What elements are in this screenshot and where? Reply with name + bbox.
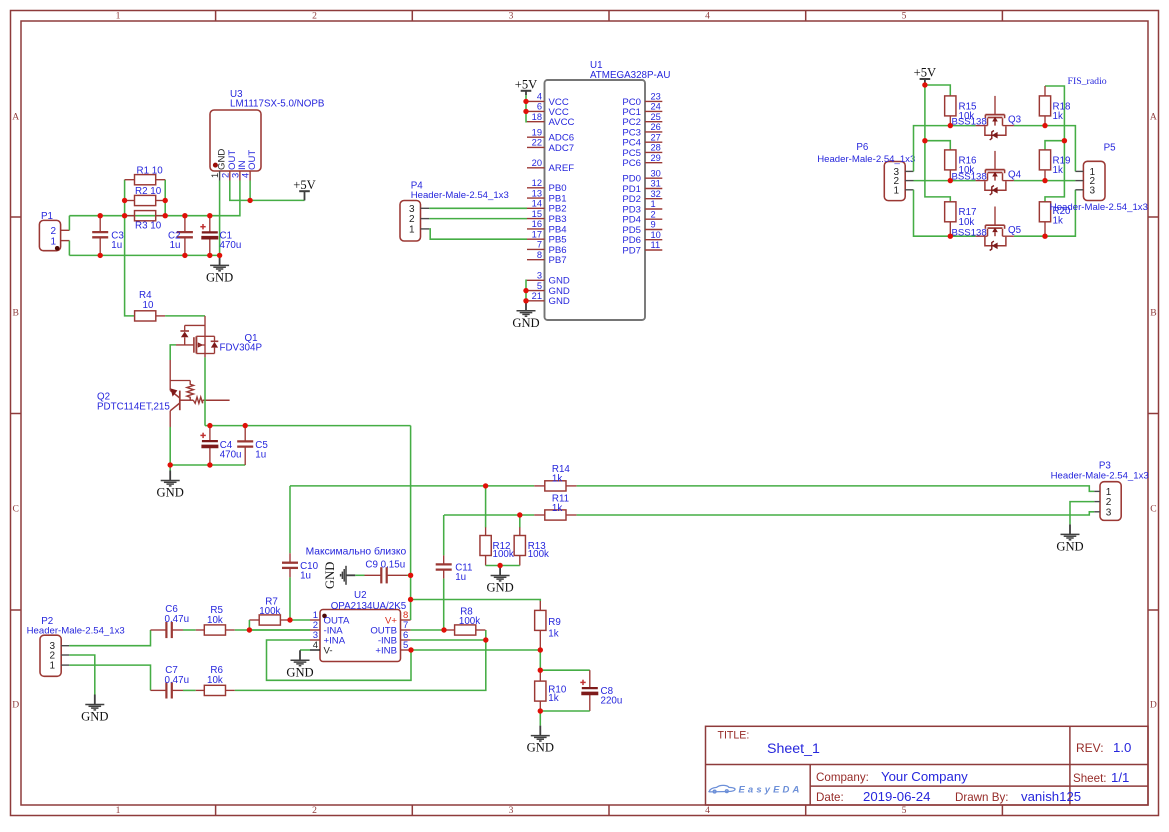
- svg-text:PDTC114ET,215: PDTC114ET,215: [97, 401, 170, 412]
- U3 pin1 marker: [213, 163, 218, 168]
- Q1 reference: [245, 333, 258, 344]
- wire C8 top branch: [540, 669, 590, 671]
- P2 pin stubs: [61, 646, 69, 665]
- wire -INA node: [249, 629, 310, 631]
- svg-text:3: 3: [537, 271, 542, 281]
- svg-text:GND: GND: [286, 665, 313, 679]
- U2 right pin stubs: [401, 620, 411, 650]
- wire P2 pin1 to C7: [69, 665, 150, 690]
- svg-text:5: 5: [537, 281, 542, 291]
- P6 value Header-Male-2.54_1x3: [817, 154, 915, 165]
- U1 right pin stubs: [645, 101, 662, 250]
- wire Q3 drain to R18 and P5 pin1: [1014, 126, 1076, 172]
- title value 1.0: [1113, 740, 1131, 755]
- svg-text:1u: 1u: [111, 240, 122, 251]
- P1 pin 2 stub: [61, 229, 70, 231]
- resistor R16: [945, 150, 956, 181]
- ground flag P3 pin2: [1056, 524, 1083, 553]
- capacitor C2: [177, 216, 193, 256]
- svg-text:GND: GND: [157, 486, 184, 500]
- svg-text:5: 5: [902, 11, 907, 22]
- P5 value Header-Male-2.54_1x3: [1050, 202, 1148, 213]
- ground flag rotated at C9: [323, 562, 355, 589]
- svg-text:GND: GND: [527, 741, 554, 755]
- wire R5 to U2 pin2: [235, 629, 310, 631]
- Q2 value PDTC114ET,215: [97, 401, 170, 412]
- resistor R10: [535, 670, 546, 711]
- svg-text:Header-Male-2.54_1x3: Header-Male-2.54_1x3: [1051, 470, 1149, 481]
- C3 label: [111, 230, 124, 251]
- P1 reference: [41, 211, 53, 222]
- wire R11 to P3 pin3: [577, 512, 1095, 515]
- wire R1 R2 left vertical: [124, 180, 126, 216]
- svg-text:1/1: 1/1: [1111, 770, 1129, 785]
- svg-text:LM1117SX-5.0/NOPB: LM1117SX-5.0/NOPB: [230, 99, 325, 110]
- wire U3 pin1 GND down: [219, 181, 221, 256]
- svg-text:Header-Male-2.54_1x3: Header-Male-2.54_1x3: [1050, 202, 1148, 213]
- svg-text:1: 1: [210, 173, 220, 178]
- svg-text:FDV304P: FDV304P: [220, 343, 263, 354]
- wire R12 feed: [485, 486, 487, 528]
- junction dots U1 power: [523, 99, 528, 304]
- svg-text:BSS138: BSS138: [952, 117, 987, 128]
- wire P4 pin1 to PB5: [429, 229, 527, 239]
- resistor R2: [125, 195, 166, 205]
- svg-text:AREF: AREF: [549, 163, 575, 174]
- svg-text:8: 8: [537, 250, 542, 260]
- R7 label: [259, 596, 280, 617]
- U2 value OPA2134UA/2K5: [331, 601, 407, 612]
- R13 label: [528, 541, 549, 560]
- resistor R5: [196, 625, 235, 635]
- transistor Q3 BSS138: [976, 96, 1014, 140]
- R20 label: [1053, 206, 1072, 227]
- svg-text:1: 1: [116, 805, 121, 816]
- svg-text:15: 15: [532, 209, 542, 219]
- svg-text:P1: P1: [41, 211, 53, 222]
- svg-text:1k: 1k: [552, 473, 562, 484]
- wire bottom rail: [69, 254, 219, 256]
- svg-text:3: 3: [1090, 185, 1096, 196]
- svg-text:+INB: +INB: [375, 646, 397, 657]
- svg-text:+5V: +5V: [914, 66, 937, 80]
- svg-text:B: B: [12, 307, 18, 318]
- wire OUTB to R8: [411, 629, 446, 631]
- resistor R17: [945, 202, 956, 236]
- wire R19 top branch: [1045, 141, 1064, 150]
- svg-text:3: 3: [230, 173, 240, 178]
- R17 label: [959, 207, 977, 228]
- U3 pin 2 OUT stub: [229, 171, 231, 181]
- wire R7 right to OUTA: [290, 619, 310, 621]
- svg-text:FIS_radio: FIS_radio: [1068, 76, 1107, 87]
- svg-text:Sheet:: Sheet:: [1073, 772, 1107, 785]
- svg-text:1k: 1k: [548, 693, 558, 704]
- svg-text:R3 10: R3 10: [135, 221, 162, 232]
- svg-text:Максимально близко: Максимально близко: [306, 545, 407, 557]
- ground flag R12 R13: [486, 566, 513, 595]
- R16 label: [959, 155, 978, 176]
- svg-text:2019-06-24: 2019-06-24: [863, 789, 930, 804]
- svg-text:P5: P5: [1104, 143, 1117, 154]
- svg-text:100k: 100k: [259, 606, 280, 617]
- svg-text:B: B: [1150, 307, 1156, 318]
- P3 reference: [1099, 460, 1112, 471]
- U2 pin1 marker: [322, 614, 327, 619]
- wire pin6 -INB to feedback: [411, 639, 486, 641]
- svg-text:Header-Male-2.54_1x3: Header-Male-2.54_1x3: [411, 190, 509, 201]
- C8 label: [601, 686, 623, 707]
- svg-text:21: 21: [532, 291, 542, 301]
- svg-text:16: 16: [532, 219, 542, 229]
- wire U3 pin2 to +5V rail: [230, 181, 305, 201]
- net label FIS_radio: [1068, 76, 1107, 87]
- svg-text:470u: 470u: [220, 240, 242, 251]
- svg-text:2: 2: [312, 805, 317, 816]
- capacitor C6: [151, 622, 184, 638]
- svg-text:1k: 1k: [548, 629, 558, 640]
- capacitor C4 polarized: [200, 426, 218, 465]
- border row letters: [12, 111, 1157, 710]
- R5 label: [207, 605, 223, 626]
- Q1 value FDV304P: [220, 343, 263, 354]
- border column ticks: [216, 11, 1003, 816]
- svg-text:22: 22: [532, 138, 542, 148]
- wire pin5 +INB line: [411, 649, 540, 651]
- wire C7 to R6: [183, 689, 196, 691]
- wire P1 pin2 to mid rail: [68, 216, 70, 231]
- svg-text:EasyEDA: EasyEDA: [739, 784, 803, 795]
- U3 reference U3: [230, 89, 243, 100]
- wire R7 left to -INA: [248, 620, 250, 630]
- title text REV:: [1076, 741, 1104, 755]
- svg-text:D: D: [12, 699, 19, 710]
- IC U1 ATMEGA328P body: [545, 80, 646, 320]
- svg-text:GND: GND: [323, 562, 337, 589]
- wire +5V branch to R16: [925, 141, 950, 150]
- U3 pin 4 OUT stub: [249, 171, 251, 181]
- P5 pin numbers: [1090, 167, 1096, 196]
- C4 label: [220, 440, 242, 461]
- title text Drawn By:: [955, 791, 1008, 804]
- resistor R20: [1039, 202, 1050, 236]
- svg-text:Q3: Q3: [1008, 115, 1022, 126]
- svg-text:100k: 100k: [493, 549, 514, 560]
- junction dots Q1 Q2 area: [168, 423, 248, 468]
- C6 label: [165, 604, 190, 625]
- wire V+ vertical: [410, 426, 412, 620]
- svg-text:TITLE:: TITLE:: [718, 730, 750, 742]
- U3 value LM1117SX-5.0/NOPB: [230, 99, 325, 110]
- transistor Q5 BSS138: [976, 207, 1014, 251]
- wire Q1 gate to Q2: [170, 345, 176, 360]
- svg-text:PD7: PD7: [622, 245, 641, 256]
- svg-text:Your Company: Your Company: [881, 769, 968, 784]
- svg-text:Drawn By:: Drawn By:: [955, 791, 1008, 804]
- svg-text:Date:: Date:: [816, 791, 844, 804]
- svg-text:26: 26: [651, 122, 661, 132]
- svg-text:9: 9: [651, 220, 656, 230]
- Q2 reference: [97, 392, 110, 403]
- svg-text:ADC7: ADC7: [549, 143, 575, 154]
- title value Sheet_1: [767, 741, 820, 757]
- svg-text:GND: GND: [206, 271, 233, 285]
- P5 pin stubs: [1075, 171, 1083, 189]
- svg-text:C: C: [1150, 503, 1156, 514]
- wire Q5 drain to P5 pin3: [1014, 190, 1076, 236]
- R10 label: [548, 685, 567, 705]
- svg-text:1k: 1k: [1053, 165, 1063, 176]
- power flag +5V near U3: [293, 178, 316, 201]
- EasyEDA logo: [709, 784, 803, 795]
- IC U2 OPA2134 body: [320, 610, 401, 662]
- svg-text:7: 7: [537, 240, 542, 250]
- title text Company:: [816, 771, 869, 784]
- svg-text:GND: GND: [486, 581, 513, 595]
- wire U3 pin4 down: [249, 181, 251, 201]
- Q3 reference: [1008, 115, 1022, 126]
- wire R4 to Q1: [165, 315, 205, 317]
- wire R14 line: [290, 485, 534, 487]
- U2 left pin names: [324, 616, 351, 657]
- svg-text:Q4: Q4: [1008, 170, 1022, 181]
- capacitor C11: [436, 515, 452, 630]
- svg-text:1: 1: [409, 224, 415, 235]
- svg-text:24: 24: [651, 102, 661, 112]
- svg-text:1: 1: [49, 661, 55, 672]
- R14 label: [552, 464, 571, 485]
- svg-text:3: 3: [509, 11, 514, 22]
- title value Your Company: [881, 769, 968, 784]
- R19 label: [1053, 155, 1071, 176]
- connector P5 body: [1083, 161, 1105, 200]
- resistor R9: [535, 601, 546, 650]
- wire P4 pin3 to PB2: [429, 207, 527, 209]
- resistor R4: [135, 311, 166, 321]
- junction dots opamp area: [247, 483, 543, 714]
- svg-text:1u: 1u: [455, 572, 466, 583]
- svg-text:C: C: [12, 503, 18, 514]
- capacitor C1 polarized: [200, 216, 218, 256]
- Q5 reference: [1008, 225, 1022, 236]
- P4 pin stubs: [421, 208, 430, 229]
- U3 pin names rotated: [217, 149, 259, 170]
- capacitor C9: [365, 567, 408, 583]
- svg-text:29: 29: [651, 153, 661, 163]
- svg-text:A: A: [1150, 111, 1157, 122]
- svg-text:PB7: PB7: [549, 255, 567, 266]
- wire U2 pin4 V- to ground: [300, 649, 310, 651]
- U2 right pin numbers: [403, 610, 408, 651]
- svg-text:13: 13: [532, 188, 542, 198]
- text note Maksimalno blizko: [306, 545, 407, 557]
- R4 label: [139, 290, 154, 311]
- title text Date:: [816, 791, 844, 804]
- svg-text:Company:: Company:: [816, 771, 869, 784]
- svg-text:23: 23: [651, 92, 661, 102]
- connector P4 body: [400, 201, 421, 242]
- svg-text:R2 10: R2 10: [135, 186, 162, 197]
- wire C6 to R5: [183, 629, 196, 631]
- svg-text:vanish125: vanish125: [1021, 789, 1081, 804]
- title text TITLE:: [718, 730, 750, 742]
- junction dots upper-left: [98, 198, 253, 258]
- svg-text:1u: 1u: [170, 240, 181, 251]
- P4 value Header-Male-2.54_1x3: [411, 190, 509, 201]
- svg-text:3: 3: [509, 805, 514, 816]
- resistor R13: [514, 527, 525, 555]
- svg-text:5: 5: [902, 805, 907, 816]
- svg-text:10k: 10k: [207, 615, 223, 626]
- wire P2 pin3 to C6: [69, 630, 150, 646]
- capacitor C7: [151, 682, 184, 698]
- svg-text:4: 4: [705, 805, 710, 816]
- capacitor C3: [92, 216, 108, 256]
- wire R9 to R10: [539, 650, 541, 670]
- resistor R8: [445, 625, 485, 635]
- svg-text:PC6: PC6: [622, 158, 641, 169]
- R15 label: [959, 101, 978, 122]
- svg-text:10k: 10k: [959, 217, 975, 228]
- resistor R11: [534, 510, 576, 520]
- svg-text:GND: GND: [549, 296, 570, 307]
- U1 value ATMEGA328P-AU: [590, 70, 670, 81]
- svg-text:Header-Male-2.54_1x3: Header-Male-2.54_1x3: [27, 626, 125, 637]
- title text Sheet:: [1073, 772, 1107, 785]
- svg-text:5: 5: [403, 640, 408, 651]
- resistor R12: [480, 527, 491, 555]
- wire R11 line: [444, 514, 534, 516]
- U3 pin 3 IN stub: [239, 171, 241, 181]
- wire P6 pin1 down to Q5 rail: [914, 190, 976, 236]
- C5 label: [255, 440, 268, 461]
- svg-text:220u: 220u: [601, 696, 623, 707]
- power flag +5V above U1: [515, 78, 538, 96]
- C9 label: [365, 560, 405, 571]
- svg-text:2: 2: [220, 173, 230, 178]
- svg-text:1k: 1k: [1053, 111, 1063, 122]
- svg-text:11: 11: [651, 240, 661, 250]
- R6 label: [207, 665, 223, 686]
- svg-text:17: 17: [532, 229, 542, 239]
- svg-text:4: 4: [241, 173, 251, 178]
- R9 label: [548, 617, 561, 640]
- svg-text:A: A: [12, 111, 19, 122]
- svg-text:4: 4: [537, 92, 542, 102]
- svg-text:R1 10: R1 10: [137, 165, 164, 176]
- R8 label: [459, 607, 480, 628]
- svg-text:100k: 100k: [459, 616, 480, 627]
- svg-text:14: 14: [532, 199, 542, 209]
- P2 reference: [41, 616, 53, 627]
- P1 pin1 marker: [55, 246, 60, 251]
- ground flag below R10: [527, 726, 554, 755]
- P2 pin numbers: [49, 641, 55, 671]
- U1 left pin numbers: [532, 92, 542, 301]
- svg-text:1: 1: [116, 11, 121, 22]
- svg-text:AVCC: AVCC: [549, 117, 575, 128]
- P5 reference: [1104, 143, 1117, 154]
- transistor Q2 PDTC114ET: [170, 360, 229, 427]
- transistor Q1 FDV304P: [176, 316, 218, 358]
- ground flag U2 V-: [286, 650, 313, 679]
- svg-text:GND: GND: [81, 710, 108, 724]
- svg-text:3: 3: [1106, 507, 1112, 518]
- wire R10 bottom to ground: [539, 711, 541, 726]
- svg-text:0.47u: 0.47u: [165, 675, 190, 686]
- svg-text:BSS138: BSS138: [952, 227, 987, 238]
- wire R12 R13 bottoms: [486, 556, 520, 566]
- svg-text:20: 20: [532, 158, 542, 168]
- C1 label: [220, 230, 242, 251]
- P1 pin numbers: [50, 226, 56, 247]
- resistor R14: [534, 481, 576, 491]
- ground flag below Q2: [157, 471, 184, 500]
- capacitor C8 polarized: [580, 670, 598, 711]
- svg-text:1: 1: [50, 236, 56, 247]
- svg-text:470u: 470u: [220, 450, 242, 461]
- svg-text:12: 12: [532, 178, 542, 188]
- title value 2019-06-24: [863, 789, 930, 804]
- svg-text:+5V: +5V: [515, 78, 538, 92]
- wire C4 C5 bottom rail: [170, 464, 245, 466]
- wire U2 pin3 +INA loop: [267, 640, 412, 680]
- C11 label: [455, 563, 472, 584]
- wire C8 bottom to R10 bottom: [540, 710, 590, 712]
- P3 pin numbers: [1106, 487, 1112, 518]
- svg-text:19: 19: [532, 127, 542, 137]
- svg-text:1k: 1k: [552, 503, 562, 514]
- capacitor C5: [237, 426, 253, 465]
- svg-text:100k: 100k: [528, 549, 549, 560]
- wire C9 left: [355, 574, 364, 576]
- border column numbers: [116, 11, 907, 817]
- Q3 value BSS138: [952, 117, 987, 128]
- svg-text:OUT: OUT: [247, 150, 258, 170]
- wire P3 pin2 to ground: [1070, 502, 1094, 525]
- svg-text:GND: GND: [512, 316, 539, 330]
- P6 pin stubs: [905, 171, 913, 189]
- U2 left pin numbers: [313, 610, 318, 651]
- wire +5V to U1 power pins: [526, 95, 527, 122]
- border row ticks: [11, 217, 1159, 610]
- svg-text:GND: GND: [1056, 540, 1083, 554]
- U3 pin numbers rotated: [210, 173, 251, 178]
- U1 right pin numbers: [651, 92, 661, 251]
- connector P1 body: [39, 220, 60, 250]
- ground flag below U1: [512, 301, 539, 330]
- connector P6 body: [884, 162, 905, 201]
- svg-text:1u: 1u: [300, 571, 311, 582]
- U1 right pin names: [622, 97, 641, 257]
- IC U3 LM1117 body: [210, 110, 261, 171]
- svg-text:R9: R9: [548, 617, 561, 628]
- svg-text:P6: P6: [856, 142, 869, 153]
- svg-text:4: 4: [705, 11, 710, 22]
- P1 pin 1 stub: [61, 240, 70, 242]
- R3 label: [135, 221, 162, 232]
- P6 pin numbers: [893, 167, 899, 196]
- wire R6 to feedback node: [235, 630, 486, 690]
- U3 pin 1 GND stub: [219, 171, 221, 181]
- wire R1 R2 right vertical: [164, 180, 166, 216]
- wire mid rail: [69, 181, 240, 216]
- P3 pin stubs: [1094, 491, 1100, 511]
- svg-text:1u: 1u: [255, 450, 266, 461]
- title value vanish125: [1021, 789, 1081, 804]
- wire R14 to P3 pin1: [577, 486, 1095, 492]
- wire Q1 drain down: [204, 357, 206, 425]
